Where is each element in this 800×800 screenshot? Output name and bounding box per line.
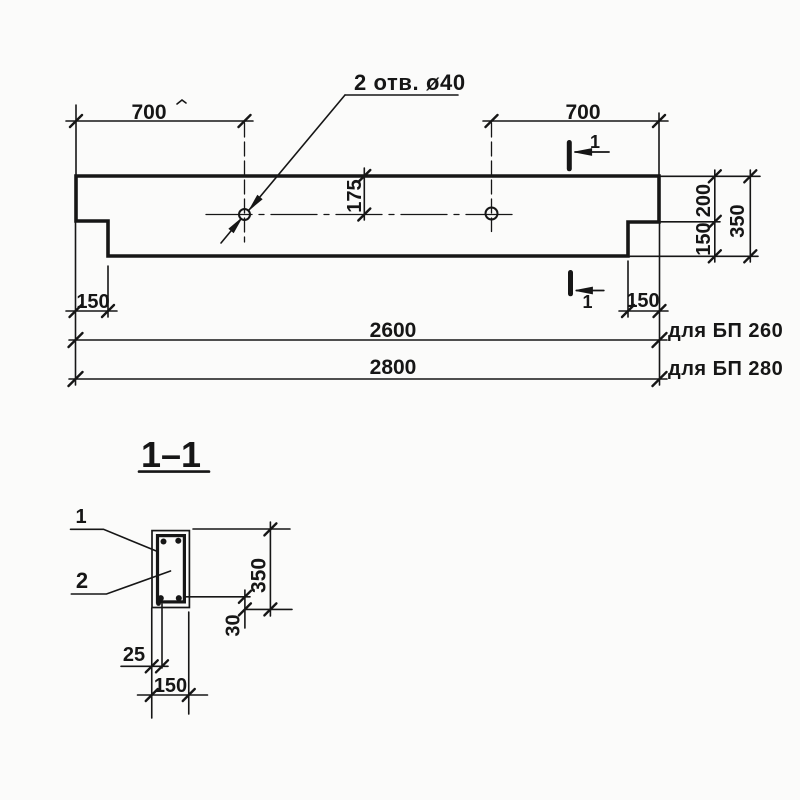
dim 700 left tick B xyxy=(239,115,251,127)
section mark 1 top arrowhead xyxy=(576,149,592,155)
section dim 25 tick left xyxy=(146,660,158,672)
dim 175 line xyxy=(363,168,365,220)
section mark 1 bottom arrow xyxy=(576,290,604,292)
section mark 1 bottom arrowhead xyxy=(576,287,592,293)
svg-text:2800: 2800 xyxy=(370,356,417,379)
svg-text:для БП 280: для БП 280 xyxy=(668,358,783,380)
right ext middle xyxy=(661,221,720,223)
dim 150 left extension xyxy=(107,266,109,317)
svg-text:350: 350 xyxy=(727,204,749,237)
section dim 150 tick right xyxy=(183,689,195,701)
rebar dot top-right xyxy=(175,538,181,544)
section ext rebar30 xyxy=(185,596,250,598)
svg-text:700: 700 xyxy=(131,101,166,124)
section ext rebar25 xyxy=(161,604,163,668)
dim 2800 line xyxy=(69,378,667,380)
dim 2600 tick right xyxy=(653,333,667,347)
dim 150 left line xyxy=(66,310,117,312)
leader 1 line xyxy=(71,529,157,551)
dim 700 left line xyxy=(66,120,253,122)
svg-text:2 отв. ø40: 2 отв. ø40 xyxy=(354,70,466,95)
right ext top xyxy=(661,175,760,177)
dim 350 tick bottom xyxy=(744,250,756,262)
rebar dot bottom-right xyxy=(176,595,182,601)
section dim 350 line xyxy=(269,522,271,616)
leader 2 line xyxy=(71,571,170,594)
dim 350 line xyxy=(749,170,751,262)
hole note leader upper xyxy=(249,95,345,210)
stirrup xyxy=(158,536,185,602)
hole note leader upper arrowhead xyxy=(250,196,262,209)
center line left hole vertical xyxy=(244,123,246,242)
svg-text:150: 150 xyxy=(693,222,715,255)
center line horizontal xyxy=(206,214,518,216)
section dim 150 tick left xyxy=(146,689,158,701)
dim 200-150 tick top xyxy=(709,170,721,182)
right long extension line xyxy=(659,222,661,385)
section dim 30 tick bottom xyxy=(239,603,251,615)
hole note underline xyxy=(345,94,458,96)
hole right xyxy=(486,208,498,220)
hole left xyxy=(239,209,250,220)
svg-text:30: 30 xyxy=(223,614,245,636)
dim 2800 tick right xyxy=(653,372,667,386)
right ext bottom xyxy=(630,255,758,257)
beam outline xyxy=(76,176,659,256)
svg-text:1: 1 xyxy=(582,292,592,312)
dim 2600 line xyxy=(69,339,667,341)
dim 700 right tick B xyxy=(653,115,665,127)
dim 700 right line xyxy=(483,120,668,122)
svg-text:175: 175 xyxy=(344,179,366,212)
hole note leader lower arrowhead xyxy=(229,219,241,232)
section mark 1 top stroke xyxy=(567,143,572,169)
svg-text:350: 350 xyxy=(248,558,271,593)
dim 700 right extension line xyxy=(658,113,660,176)
section dim 350 tick bottom xyxy=(264,603,276,615)
svg-text:150: 150 xyxy=(154,675,187,697)
svg-text:200: 200 xyxy=(693,184,715,217)
section ext bottom350 xyxy=(245,608,292,610)
stray mark xyxy=(177,100,186,104)
section dim 350 tick top xyxy=(264,523,276,535)
dim 200-150 tick middle xyxy=(709,216,721,228)
svg-text:2600: 2600 xyxy=(370,319,417,342)
dim 150 right tick B xyxy=(654,305,666,317)
dim 2800 tick left xyxy=(69,372,83,386)
dim 700 left tick A xyxy=(70,115,82,127)
section outer rect xyxy=(152,531,189,608)
section dim 30 line xyxy=(244,590,246,628)
dim 2600 tick left xyxy=(69,333,83,347)
dim 200-150 tick bottom xyxy=(709,250,721,262)
svg-text:для БП 260: для БП 260 xyxy=(668,320,783,342)
section dim 150 line xyxy=(138,694,208,696)
section ext left long xyxy=(151,608,153,718)
dim 200-150 line xyxy=(714,170,716,262)
dim 150 right line xyxy=(619,310,668,312)
dim 175 tick top xyxy=(358,170,370,182)
section mark 1 top arrow xyxy=(575,151,609,153)
svg-text:1: 1 xyxy=(590,132,600,152)
svg-text:700: 700 xyxy=(565,101,600,124)
dim 150 right tick A xyxy=(622,305,634,317)
section ext top xyxy=(193,528,290,530)
section dim 25 line xyxy=(121,665,168,667)
svg-text:2: 2 xyxy=(76,568,88,593)
left long extension line xyxy=(75,221,77,385)
svg-text:150: 150 xyxy=(76,291,109,313)
stirrup corner blob bottom-left xyxy=(156,601,161,606)
section dim 25 tick right xyxy=(156,660,168,672)
hole note leader lower xyxy=(221,220,241,244)
section ext right long xyxy=(188,612,190,714)
section mark 1 bottom stroke xyxy=(568,273,573,294)
svg-text:150: 150 xyxy=(626,290,659,312)
center line right hole vertical xyxy=(491,123,493,232)
dim 350 tick top xyxy=(744,170,756,182)
rebar dot top-left xyxy=(161,539,167,545)
section title underline xyxy=(139,470,209,473)
dim 700 left extension line xyxy=(75,105,77,176)
svg-text:1: 1 xyxy=(75,506,86,528)
dim 700 right tick A xyxy=(486,115,498,127)
rebar dot bottom-left xyxy=(158,595,164,601)
dim 150 right extension xyxy=(627,261,629,317)
dim 150 left tick A xyxy=(70,305,82,317)
svg-text:1–1: 1–1 xyxy=(141,434,201,475)
svg-text:25: 25 xyxy=(123,644,145,666)
dim 175 tick bottom xyxy=(358,209,370,221)
dim 150 left tick B xyxy=(102,305,114,317)
section dim 30 tick top xyxy=(239,591,251,603)
